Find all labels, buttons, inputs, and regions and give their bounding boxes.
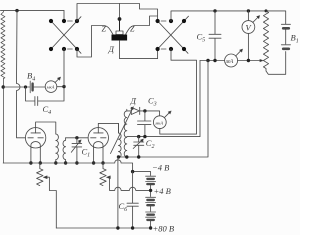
- sub rail y157: [118, 61, 208, 158]
- main rail y163 with hop: [3, 160, 132, 172]
- triode V1: [25, 122, 55, 163]
- node L2 left bottom: [117, 155, 120, 158]
- capacitor C5: [209, 11, 221, 60]
- wire detector right lead Z: [126, 16, 158, 35]
- svg-text:мкА: мкА: [46, 85, 55, 90]
- svg-text:В4: В4: [27, 71, 35, 83]
- wire detector bottom to S2: [120, 41, 158, 59]
- wire grid tube2: [66, 137, 89, 139]
- wire x117.9 vertical: [117, 157, 119, 228]
- node C4 branch: [24, 85, 27, 88]
- resistor R1: [37, 163, 43, 186]
- wire meter loop to S2: [160, 49, 197, 134]
- svg-text:−4 В: −4 В: [152, 163, 169, 173]
- node T1 primary bottom: [54, 161, 57, 164]
- node tube1 fil left: [29, 161, 32, 164]
- transformer T1 secondary: [63, 138, 66, 163]
- node diode C3 junction: [143, 109, 146, 112]
- wire switch1 feed down: [63, 11, 65, 20]
- svg-text:Z: Z: [102, 25, 107, 34]
- svg-text:Z: Z: [130, 25, 135, 34]
- node junction top-left: [15, 9, 18, 12]
- node tube2 fil left: [92, 161, 95, 164]
- node T1 secondary bottom: [64, 161, 67, 164]
- capacitor C6: [127, 172, 138, 228]
- svg-text:мкА: мкА: [154, 120, 163, 125]
- node x208: [206, 59, 209, 62]
- svg-text:Д: Д: [130, 96, 137, 106]
- node antenna tap: [2, 85, 5, 88]
- node detector top: [118, 17, 122, 31]
- node -4V: [131, 170, 134, 173]
- resistor R2: [100, 163, 106, 186]
- wire -4V to battery: [133, 172, 151, 176]
- node C2 bottom: [137, 155, 140, 158]
- microammeter uA2: [153, 111, 171, 129]
- node C1 bottom: [75, 161, 78, 164]
- triode V2: [88, 123, 118, 163]
- wire S1 down to B4 node: [63, 49, 65, 87]
- wire detector left lead Z: [77, 26, 113, 58]
- node B4 right: [62, 85, 65, 88]
- battery B4 cell: [30, 81, 32, 93]
- svg-text:+4 В: +4 В: [154, 186, 171, 196]
- node +4V: [149, 189, 152, 192]
- R2 wiper arrow and wire: [106, 176, 150, 191]
- svg-text:мА: мА: [225, 59, 234, 65]
- svg-text:C3: C3: [148, 96, 157, 108]
- node C3 bottom: [143, 135, 146, 138]
- svg-text:В1: В1: [291, 33, 299, 45]
- svg-text:Д: Д: [108, 44, 115, 54]
- node C1 top: [75, 136, 78, 139]
- svg-text:C2: C2: [146, 138, 155, 150]
- node V bottom: [247, 59, 250, 62]
- node L2 right bottom: [125, 155, 128, 158]
- milliammeter mA: [225, 49, 243, 67]
- svg-text:C6: C6: [119, 201, 128, 213]
- node tube1 fil right: [39, 161, 42, 164]
- inductor L1 antenna coil: [1, 11, 5, 163]
- node rheostat top: [265, 9, 268, 12]
- node C5 bottom: [213, 59, 216, 62]
- node x117.9 bottom: [116, 226, 119, 229]
- svg-text:C5: C5: [197, 32, 206, 44]
- diode D2: [127, 107, 160, 115]
- battery B1: [281, 24, 290, 49]
- node C2 top: [137, 135, 140, 138]
- rheostat wiper arrow: [260, 59, 263, 61]
- node C6 bottom: [131, 226, 134, 229]
- switch S1 crossed: [49, 17, 81, 54]
- wire B4 branch: [3, 86, 64, 88]
- capacitor C4: [26, 87, 65, 106]
- voltmeter V: [242, 11, 260, 60]
- svg-text:+80 В: +80 В: [153, 224, 175, 234]
- transformer T1 primary: [56, 134, 59, 163]
- svg-text:C4: C4: [43, 104, 52, 116]
- wire grid lead tube1 with hop over B4 wire: [17, 11, 26, 138]
- wire tank bottom rail to y60 rail: [127, 61, 200, 137]
- switch S2 crossed: [156, 16, 189, 53]
- node tube2 fil right: [101, 161, 104, 164]
- microammeter uA1: [45, 77, 60, 92]
- svg-text:C1: C1: [82, 147, 91, 159]
- wire S1 to detector top: [77, 4, 158, 22]
- capacitor C1 variable: [71, 138, 81, 163]
- crystal detector D1: [112, 31, 128, 41]
- wire bottom rail y60.5: [200, 60, 262, 62]
- inductor L2 right winding: [124, 109, 127, 157]
- capacitor C3: [138, 111, 151, 137]
- node C5 top: [213, 9, 216, 12]
- R1 wiper arrow and wire: [43, 176, 56, 228]
- inductor L2 left winding: [119, 123, 122, 157]
- wire top-left horizontal: [1, 10, 65, 12]
- bottom rail y228: [56, 227, 150, 229]
- capacitor C2 variable: [133, 137, 144, 157]
- L2 variometer arrow: [111, 107, 134, 154]
- rheostat R3: [263, 11, 285, 74]
- wire top rail to battery B1: [171, 11, 286, 24]
- wire detector top drop: [119, 4, 121, 19]
- battery B2 stack: [146, 176, 156, 228]
- node +80V: [149, 226, 152, 229]
- node V top: [247, 9, 250, 12]
- svg-text:V: V: [246, 23, 253, 33]
